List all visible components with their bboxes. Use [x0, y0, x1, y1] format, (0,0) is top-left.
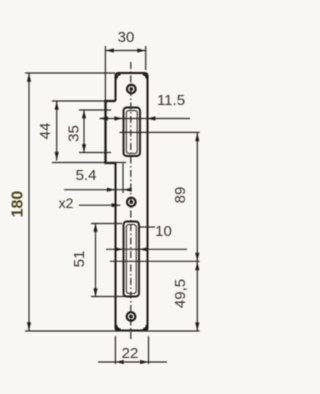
- svg-text:44: 44: [37, 123, 54, 140]
- svg-text:35: 35: [66, 125, 83, 142]
- svg-text:180: 180: [10, 191, 27, 218]
- svg-text:11.5: 11.5: [157, 92, 185, 109]
- svg-text:x2: x2: [59, 195, 74, 211]
- svg-text:5.4: 5.4: [76, 167, 97, 184]
- svg-text:22: 22: [122, 345, 139, 362]
- svg-text:49,5: 49,5: [172, 279, 189, 308]
- svg-text:30: 30: [118, 29, 135, 46]
- svg-text:51: 51: [71, 251, 88, 268]
- svg-text:89: 89: [172, 187, 189, 204]
- svg-text:10: 10: [155, 223, 172, 240]
